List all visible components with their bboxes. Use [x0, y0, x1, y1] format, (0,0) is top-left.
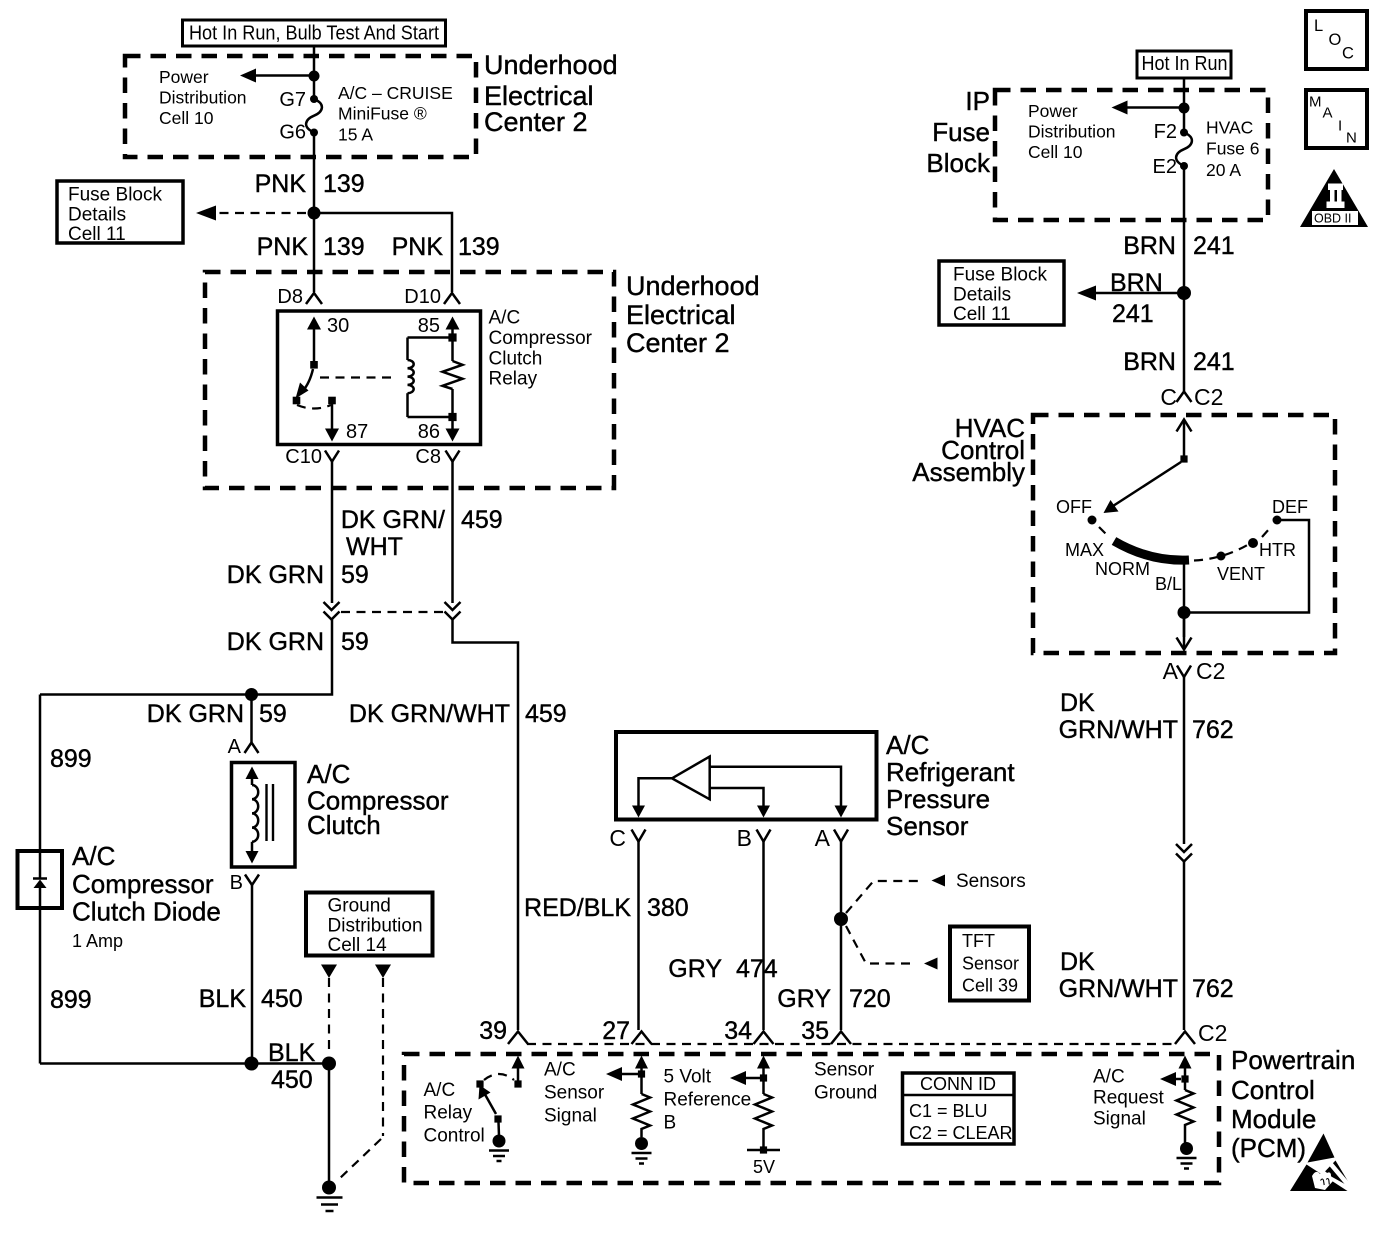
svg-text:Electrical: Electrical	[626, 300, 736, 330]
svg-text:Sensors: Sensors	[956, 871, 1026, 892]
label A/C Request Signal	[1093, 1067, 1164, 1130]
svg-text:Cell 14: Cell 14	[328, 935, 388, 956]
svg-text:Sensor: Sensor	[962, 954, 1019, 974]
svg-text:DK GRN/WHT: DK GRN/WHT	[349, 700, 510, 728]
svg-text:C2: C2	[1194, 384, 1223, 410]
svg-text:DK: DK	[1060, 689, 1095, 717]
wire DK GRN/WHT 459 from C8	[451, 462, 454, 604]
svg-text:TFT: TFT	[962, 931, 995, 951]
dashed connector tie line	[341, 611, 443, 613]
relay pin 30	[307, 315, 349, 369]
svg-text:Hot In Run: Hot In Run	[1142, 53, 1228, 75]
svg-text:GRN/WHT: GRN/WHT	[1059, 716, 1178, 744]
arrow BRN 241 to fuse block details	[1077, 269, 1184, 328]
contact VENT	[1217, 552, 1266, 585]
HVAC selector wiper blade	[1104, 462, 1182, 513]
dashed box Underhood Electrical Center 2 (relay section)	[205, 272, 614, 488]
node: PNK splice	[308, 207, 321, 220]
dashed detent HTR-DEF	[1262, 528, 1270, 537]
svg-text:86: 86	[418, 421, 440, 443]
svg-text:899: 899	[50, 745, 92, 773]
svg-text:BRN: BRN	[1110, 269, 1163, 297]
svg-text:Power: Power	[159, 67, 209, 87]
PCM 5 volt reference source	[730, 1056, 780, 1178]
dashed detent OFF-MAX	[1099, 527, 1108, 536]
svg-text:Assembly: Assembly	[912, 457, 1025, 487]
connector pin C10	[285, 446, 339, 468]
svg-text:Center 2: Center 2	[626, 328, 730, 358]
dashed box HVAC Control Assembly	[1033, 415, 1335, 653]
svg-text:Cell 11: Cell 11	[953, 304, 1011, 325]
svg-text:899: 899	[50, 986, 92, 1014]
svg-text:59: 59	[341, 628, 369, 656]
svg-text:1 Amp: 1 Amp	[72, 931, 123, 951]
svg-text:A/C – CRUISE: A/C – CRUISE	[338, 83, 453, 103]
svg-text:WHT: WHT	[346, 533, 403, 561]
relay coil	[408, 338, 453, 418]
PCM A/C relay control driver	[476, 1056, 524, 1162]
svg-text:A/C: A/C	[544, 1060, 576, 1081]
svg-text:20 A: 20 A	[1206, 160, 1241, 180]
svg-text:30: 30	[327, 315, 349, 337]
sensor transducer triangle	[672, 757, 710, 800]
svg-text:BLK: BLK	[199, 985, 247, 1013]
box Ground Distribution Cell 14	[306, 893, 433, 957]
svg-text:Ground: Ground	[814, 1083, 877, 1104]
node: DK GRN splice to clutch	[245, 688, 258, 701]
in-line connector (DK GRN/WHT 762)	[1176, 844, 1192, 862]
svg-text:35: 35	[801, 1017, 829, 1045]
svg-text:Pressure: Pressure	[886, 784, 990, 814]
feed label box "Hot In Run"	[1137, 51, 1231, 78]
relay switch blade	[293, 369, 313, 404]
wire DEF to output	[1184, 520, 1309, 613]
PCM connector face dashed line	[527, 1043, 1176, 1045]
svg-text:Details: Details	[68, 205, 126, 226]
wire DK GRN/WHT 762 to PCM	[1183, 862, 1186, 1031]
connector pin C8	[415, 446, 459, 468]
dashed box Underhood Electrical Center 2 (fuse section)	[125, 56, 476, 157]
label A/C Compressor Clutch Diode 1 Amp	[72, 841, 221, 951]
svg-text:A: A	[228, 736, 242, 758]
svg-text:Center 2: Center 2	[484, 107, 588, 137]
MAIN legend box	[1306, 90, 1367, 148]
svg-text:Compressor: Compressor	[489, 328, 593, 349]
svg-text:474: 474	[736, 955, 778, 983]
wire DK GRN/WHT 459 jog to PCM pin 39	[453, 620, 519, 1031]
in-line connector (left, DK GRN)	[324, 602, 340, 620]
svg-text:459: 459	[525, 700, 567, 728]
svg-text:IP: IP	[965, 86, 990, 116]
connector pin A (sensor)	[815, 825, 848, 851]
svg-text:15 A: 15 A	[338, 125, 373, 145]
svg-text:BLK: BLK	[268, 1039, 316, 1067]
svg-text:Fuse 6: Fuse 6	[1206, 139, 1260, 159]
label A/C Sensor Signal	[544, 1060, 605, 1127]
label A/C Compressor Clutch	[307, 759, 449, 840]
svg-text:D10: D10	[404, 286, 441, 308]
node: power distribution tap	[309, 71, 320, 82]
svg-text:C2: C2	[1196, 658, 1225, 684]
svg-text:39: 39	[479, 1017, 507, 1045]
svg-text:762: 762	[1192, 975, 1234, 1003]
svg-text:A/C: A/C	[307, 759, 350, 789]
ground distribution drop arrow (right)	[375, 965, 391, 979]
svg-text:241: 241	[1112, 300, 1154, 328]
wire to ground	[328, 1064, 331, 1188]
svg-text:C: C	[1160, 384, 1177, 410]
label BLK 450 (at splice)	[268, 1039, 316, 1094]
svg-text:HVAC: HVAC	[1206, 118, 1253, 138]
svg-text:Cell 11: Cell 11	[68, 224, 126, 245]
svg-text:C2 = CLEAR: C2 = CLEAR	[909, 1123, 1013, 1143]
node: HVAC output junction	[1178, 606, 1191, 619]
relay actuating dashed link	[320, 376, 396, 378]
svg-text:DK GRN/: DK GRN/	[341, 506, 445, 534]
svg-text:MiniFuse ®: MiniFuse ®	[338, 104, 427, 124]
svg-text:RED/BLK: RED/BLK	[524, 894, 631, 922]
wire 899 loop through diode	[39, 695, 42, 879]
label A/C Relay Control	[424, 1080, 485, 1147]
svg-text:GRY: GRY	[668, 955, 722, 983]
svg-text:Fuse Block: Fuse Block	[68, 185, 162, 206]
wire from feed box into UEC2 fuse box	[313, 46, 316, 99]
svg-text:M: M	[1309, 94, 1322, 111]
svg-text:A/C: A/C	[1093, 1067, 1125, 1088]
dashed box Powertrain Control Module (PCM)	[404, 1054, 1219, 1183]
svg-text:Ground: Ground	[328, 896, 391, 917]
svg-text:A: A	[1323, 105, 1333, 122]
fuse HVAC Fuse 6 20A, terminals F2/E2	[1153, 118, 1260, 181]
svg-text:34: 34	[724, 1017, 752, 1045]
svg-text:Module: Module	[1231, 1104, 1316, 1134]
connector pin C2 (PCM)	[1175, 1020, 1227, 1046]
svg-text:DK GRN: DK GRN	[227, 628, 324, 656]
svg-text:PNK: PNK	[257, 233, 309, 261]
svg-text:C8: C8	[415, 446, 441, 468]
A/C Compressor Clutch coil box	[232, 763, 296, 868]
in-line connector (right, DK GRN/WHT)	[445, 602, 461, 620]
label IP Fuse Block	[926, 86, 991, 178]
svg-text:59: 59	[341, 561, 369, 589]
svg-text:CONN ID: CONN ID	[920, 1074, 996, 1094]
svg-text:I: I	[1338, 118, 1342, 135]
label 5 Volt Reference B	[664, 1067, 752, 1134]
label Underhood Electrical Center 2	[484, 50, 618, 137]
box TFT Sensor Cell 39	[950, 927, 1029, 1001]
svg-text:OFF: OFF	[1056, 497, 1092, 517]
wire DK GRN 59 down and left to diode loop	[40, 620, 332, 695]
svg-text:85: 85	[418, 315, 440, 337]
svg-text:380: 380	[647, 894, 689, 922]
svg-text:Fuse: Fuse	[932, 117, 990, 147]
svg-text:A/C: A/C	[489, 308, 521, 329]
svg-text:BRN: BRN	[1123, 348, 1176, 376]
svg-text:Request: Request	[1093, 1088, 1164, 1109]
svg-text:B: B	[737, 825, 752, 851]
node: BRN splice	[1177, 286, 1191, 300]
connector pin B (clutch)	[230, 872, 259, 894]
relay pin 85	[418, 315, 460, 338]
wire PNK 139 down to relay D8	[313, 133, 316, 293]
sensor internal lead to pin B	[710, 788, 770, 818]
svg-text:C: C	[1342, 45, 1354, 63]
dashed branch to other Sensors	[846, 871, 1026, 913]
svg-text:139: 139	[458, 233, 500, 261]
wire DK GRN 59 from C10	[331, 462, 334, 604]
svg-text:DK GRN: DK GRN	[147, 700, 244, 728]
A/C Refrigerant Pressure Sensor box	[616, 732, 877, 820]
svg-text:Hot In Run, Bulb Test And Star: Hot In Run, Bulb Test And Start	[189, 23, 439, 45]
svg-text:C2: C2	[1198, 1020, 1227, 1046]
label A/C Refrigerant Pressure Sensor	[886, 730, 1015, 841]
HVAC output arrow	[1183, 613, 1186, 648]
dashed branch to TFT Sensor	[846, 926, 938, 970]
svg-text:F2: F2	[1154, 121, 1177, 143]
svg-text:450: 450	[261, 985, 303, 1013]
svg-text:Relay: Relay	[424, 1103, 473, 1124]
dashed detent arc B/L-VENT-HTR	[1194, 544, 1250, 561]
svg-text:Clutch: Clutch	[307, 810, 381, 840]
svg-text:A: A	[1163, 658, 1179, 684]
svg-text:C: C	[609, 825, 626, 851]
connector pin C / C2 (HVAC input)	[1160, 384, 1223, 410]
svg-text:GRY: GRY	[777, 985, 831, 1013]
svg-text:B: B	[664, 1113, 677, 1134]
svg-text:5V: 5V	[753, 1157, 775, 1177]
svg-text:Sensor: Sensor	[544, 1083, 605, 1104]
wire GRY 474 to PCM pin 34	[762, 842, 765, 1031]
label DK GRN/WHT 762 (upper)	[1059, 689, 1234, 744]
A/C Compressor Clutch Diode box	[18, 851, 63, 908]
relay coil suppression resistor	[443, 333, 463, 421]
PCM A/C sensor signal input	[606, 1056, 652, 1164]
feed label box "Hot In Run, Bulb Test And Start"	[183, 20, 446, 46]
wire BLK 450 from clutch B	[251, 885, 254, 1064]
connector pin D10	[404, 286, 460, 308]
wire arc output down	[1183, 560, 1186, 637]
svg-text:C1 = BLU: C1 = BLU	[909, 1101, 988, 1121]
OBD II legend triangle	[1300, 169, 1368, 227]
wire DK GRN/WHT 762	[1183, 677, 1186, 844]
svg-text:Compressor: Compressor	[72, 869, 214, 899]
svg-text:Distribution: Distribution	[1028, 122, 1116, 142]
contact HTR	[1248, 538, 1296, 560]
selector thick contact arc MAX-NORM-B/L	[1114, 541, 1189, 560]
ESD warning symbol	[1290, 1134, 1353, 1192]
HVAC selector feed arrow	[1177, 420, 1192, 463]
svg-text:Sensor: Sensor	[814, 1060, 875, 1081]
svg-text:Reference: Reference	[664, 1090, 752, 1111]
svg-text:NORM: NORM	[1095, 559, 1150, 579]
svg-text:GRN/WHT: GRN/WHT	[1059, 975, 1178, 1003]
svg-text:Clutch: Clutch	[489, 349, 543, 370]
svg-text:Distribution: Distribution	[328, 916, 423, 937]
svg-text:Control: Control	[1231, 1075, 1315, 1105]
svg-text:B: B	[230, 872, 243, 894]
svg-text:87: 87	[346, 421, 368, 443]
svg-text:BRN: BRN	[1123, 232, 1176, 260]
svg-text:Signal: Signal	[1093, 1109, 1146, 1130]
svg-text:DK: DK	[1060, 948, 1095, 976]
label A/C Compressor Clutch Relay	[489, 308, 593, 390]
sensor internal lead to pin C	[632, 778, 672, 817]
wire BLK 450 bottom run	[40, 1062, 329, 1065]
svg-text:G7: G7	[279, 89, 306, 111]
svg-text:OBD II: OBD II	[1314, 212, 1352, 226]
box Fuse Block Details Cell 11 (IP)	[939, 261, 1064, 325]
wire BRN 241 down to HVAC control	[1183, 166, 1186, 391]
svg-text:Power: Power	[1028, 101, 1078, 121]
svg-text:241: 241	[1193, 232, 1235, 260]
arrow to Power Distribution Cell 10 (IP)	[1028, 101, 1184, 163]
svg-text:G6: G6	[279, 122, 306, 144]
svg-text:Refrigerant: Refrigerant	[886, 757, 1015, 787]
svg-text:27: 27	[602, 1017, 630, 1045]
svg-text:A/C: A/C	[886, 730, 929, 760]
svg-text:Relay: Relay	[489, 369, 538, 390]
svg-text:Underhood: Underhood	[484, 50, 618, 80]
label HVAC Control Assembly	[912, 413, 1025, 487]
svg-text:D8: D8	[277, 286, 303, 308]
dashed arrow to Fuse Block Details Cell 11	[196, 206, 306, 221]
svg-text:Fuse Block: Fuse Block	[953, 265, 1047, 286]
svg-text:Block: Block	[926, 148, 991, 178]
PCM A/C request signal input	[1160, 1056, 1197, 1169]
connector pin 35	[801, 1017, 851, 1045]
sensor internal lead to pin A	[710, 767, 848, 818]
svg-text:O: O	[1329, 31, 1342, 49]
svg-text:Control: Control	[424, 1126, 485, 1147]
svg-text:MAX: MAX	[1065, 540, 1104, 560]
svg-text:A: A	[815, 825, 831, 851]
svg-text:241: 241	[1193, 348, 1235, 376]
LOC legend box	[1306, 11, 1367, 69]
svg-text:450: 450	[271, 1066, 313, 1094]
svg-text:HTR: HTR	[1259, 540, 1296, 560]
svg-text:DK GRN: DK GRN	[227, 561, 324, 589]
svg-text:A/C: A/C	[72, 841, 115, 871]
connector pin B (sensor)	[737, 825, 771, 851]
label Underhood Electrical Center 2 (second)	[626, 271, 760, 358]
svg-text:Distribution: Distribution	[159, 88, 247, 108]
arrow to Power Distribution Cell 10	[159, 67, 314, 128]
label DK GRN/ WHT 459	[341, 506, 503, 561]
connector pin A (clutch)	[228, 736, 259, 758]
svg-text:B/L: B/L	[1155, 574, 1182, 594]
svg-text:5 Volt: 5 Volt	[664, 1067, 712, 1088]
svg-text:VENT: VENT	[1217, 564, 1265, 584]
connector pin 34	[724, 1017, 773, 1045]
svg-text:E2: E2	[1153, 156, 1177, 178]
label Sensor Ground	[814, 1060, 877, 1104]
ground distribution drop arrow (left)	[321, 965, 337, 979]
node: BLK splice at ground drop	[322, 1057, 336, 1071]
connector pin 39	[479, 1017, 528, 1045]
svg-text:139: 139	[323, 170, 365, 198]
wire from Hot In Run into IP fuse block	[1183, 78, 1186, 133]
svg-text:PNK: PNK	[392, 233, 444, 261]
wire RED/BLK 380 to PCM pin 27	[637, 842, 640, 1031]
box CONN ID	[903, 1073, 1015, 1144]
svg-text:PNK: PNK	[255, 170, 307, 198]
svg-text:A/C: A/C	[424, 1080, 456, 1101]
ground G105	[317, 1181, 343, 1212]
svg-text:762: 762	[1192, 716, 1234, 744]
connector pin D8	[277, 286, 322, 308]
node: sensor ground splice	[834, 912, 848, 926]
connector pin A / C2 (HVAC output)	[1163, 658, 1226, 684]
node: BLK splice at clutch return	[245, 1057, 259, 1071]
svg-text:Cell 39: Cell 39	[962, 976, 1018, 996]
box Fuse Block Details Cell 11	[57, 181, 183, 245]
label DK GRN/WHT 762 (lower)	[1059, 948, 1234, 1003]
connector pin 27	[602, 1017, 651, 1045]
dashed box IP Fuse Block	[995, 90, 1268, 220]
label Powertrain Control Module (PCM)	[1231, 1045, 1355, 1163]
fuse A/C-CRUISE MiniFuse 15A, terminals G7/G6	[279, 83, 452, 145]
svg-text:459: 459	[461, 506, 503, 534]
wire branch PNK 139 to relay D10	[314, 213, 452, 292]
svg-text:139: 139	[323, 233, 365, 261]
wire to clutch pin A	[250, 695, 253, 743]
relay A/C Compressor Clutch Relay box	[278, 311, 481, 445]
svg-text:59: 59	[259, 700, 287, 728]
svg-text:C10: C10	[285, 446, 322, 468]
svg-text:Underhood: Underhood	[626, 271, 760, 301]
svg-text:DEF: DEF	[1272, 497, 1308, 517]
svg-text:Clutch Diode: Clutch Diode	[72, 897, 221, 927]
svg-text:(PCM): (PCM)	[1231, 1133, 1306, 1163]
contact DEF	[1272, 497, 1308, 525]
svg-text:Details: Details	[953, 285, 1011, 306]
svg-text:Powertrain: Powertrain	[1231, 1045, 1355, 1075]
relay switch rest contact (pin 87)	[297, 397, 368, 443]
svg-text:Sensor: Sensor	[886, 811, 969, 841]
svg-text:N: N	[1346, 130, 1357, 147]
svg-text:Cell 10: Cell 10	[1028, 142, 1083, 162]
node: IP power tap	[1179, 103, 1190, 114]
svg-text:Cell 10: Cell 10	[159, 108, 214, 128]
connector pin C (sensor)	[609, 825, 645, 851]
dashed ground distribution links	[328, 978, 330, 1054]
relay pin 86	[418, 417, 460, 443]
contact OFF	[1056, 497, 1097, 525]
wire GRY 720 to PCM pin 35	[840, 842, 843, 1031]
svg-text:L: L	[1314, 17, 1323, 35]
svg-text:720: 720	[849, 985, 891, 1013]
svg-text:Signal: Signal	[544, 1106, 597, 1127]
